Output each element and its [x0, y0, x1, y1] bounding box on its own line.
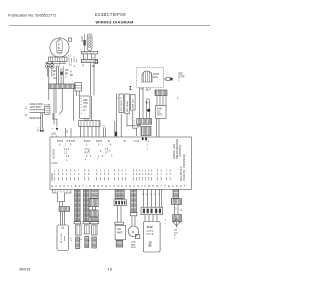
thermistor wire: [116, 94, 118, 138]
evaporator fan motor: [142, 71, 160, 82]
svg-text:GN: GN: [53, 78, 57, 80]
svg-text:J: J: [147, 148, 148, 150]
condenser fan wires: [132, 216, 135, 226]
harness connector lower (hatched): [141, 127, 151, 136]
svg-text:BW15: BW15: [20, 267, 32, 272]
board interior pin grid left: [64, 149, 109, 162]
door switch block (hatched): [173, 215, 182, 222]
svg-text:FRONT: FRONT: [51, 172, 54, 181]
dispenser twin wires: [117, 206, 121, 223]
overload protector strip: [49, 57, 68, 62]
svg-text:AC BOX: AC BOX: [52, 149, 56, 159]
user interface fan wires: [145, 215, 157, 222]
door switch caption: [174, 230, 178, 240]
compressor motor: [50, 38, 69, 57]
board interior extra pin marks: [85, 151, 113, 162]
compressor harness ribbon (hatched): [49, 84, 76, 89]
board lower pin columns: [54, 171, 172, 181]
wires from fan module into board: [157, 119, 160, 138]
board interior second row: [59, 145, 112, 147]
wire BK down from splice: [47, 68, 49, 76]
svg-text:B R B: B R B: [84, 141, 90, 143]
power cord bus: [46, 62, 66, 64]
evaporator compartment (dashed box): [137, 67, 164, 87]
run capacitor: [87, 34, 92, 51]
connector side labels: [165, 220, 167, 226]
svg-text:DEFROST: DEFROST: [30, 117, 42, 120]
svg-text:WIRING DIAGRAM: WIRING DIAGRAM: [96, 20, 135, 25]
door board vertical label: [180, 166, 186, 181]
svg-text:WTR VLV: WTR VLV: [61, 232, 63, 243]
heater assembly box: [80, 96, 91, 118]
svg-text:FRZ SENS: FRZ SENS: [121, 100, 123, 111]
svg-text:OR: OR: [65, 70, 69, 72]
user interface board: [143, 222, 160, 253]
svg-text:DISPENSER: DISPENSER: [183, 154, 186, 168]
svg-text:B R B: B R B: [57, 141, 63, 143]
svg-text:MTR: MTR: [157, 114, 162, 117]
ribbon C lower: [91, 217, 98, 222]
svg-text:DOOR BD: DOOR BD: [183, 169, 186, 181]
ribbon B tail: [85, 237, 89, 248]
wire nut splice right: [50, 62, 54, 68]
splice dot right: [52, 128, 58, 131]
user interface wires: [144, 189, 162, 207]
defrost thermostat: [45, 107, 50, 115]
supply wires horizontal: [30, 110, 45, 113]
thermistor 1 freezer sensor: [119, 94, 124, 113]
connector label P10: [52, 132, 57, 138]
door switch ribbon: [173, 189, 179, 198]
board part number line: [52, 162, 58, 164]
ribbon C splice block 1 (hatched): [89, 199, 98, 207]
elbow wire to board 1: [127, 114, 141, 126]
harness end connector: [75, 83, 82, 92]
line terminals tiny labels: [26, 106, 28, 116]
user interface connector: [141, 207, 163, 215]
harness ribbon A: [75, 189, 81, 221]
wires between connectors: [138, 124, 140, 128]
wires into board top left: [115, 121, 117, 137]
svg-text:BU: BU: [70, 75, 74, 77]
wire labels column 2: [65, 70, 74, 79]
svg-text:R B R: R B R: [96, 141, 102, 143]
splice colon marks: [130, 86, 132, 90]
capacitor bleed resistor label: [81, 34, 86, 52]
board main control vertical text: [172, 139, 182, 159]
harness ribbon C: [91, 189, 98, 198]
splice dots left pair: [37, 128, 44, 132]
water valve plug shell: [53, 189, 71, 201]
aux wires into board: [103, 126, 106, 138]
capacitor terminal bar upper: [81, 51, 97, 54]
svg-text:TSTAT: TSTAT: [44, 103, 51, 106]
svg-text:BRGYO: BRGYO: [142, 194, 161, 196]
svg-text:DR: DR: [174, 230, 178, 232]
dispenser ribbon short wires: [115, 189, 124, 198]
user interface wire labels: [142, 194, 161, 196]
svg-text:REF SENS: REF SENS: [127, 101, 129, 112]
svg-text:BR: BR: [65, 74, 69, 76]
connector side labels: [134, 121, 136, 126]
svg-text:M: M: [132, 230, 134, 234]
capacitor terminal bar lower (hatched): [81, 59, 97, 62]
ribbon A tail: [76, 237, 80, 249]
svg-text:R B R B: R B R B: [67, 141, 76, 143]
ribbon C mid: [92, 207, 95, 210]
water valve connector (hatched): [59, 207, 70, 212]
start relay label marks: [57, 55, 77, 70]
thermostat caption: [30, 103, 52, 120]
water valve body: [57, 225, 69, 251]
svg-text:AMB SEN: AMB SEN: [132, 98, 135, 108]
left harness long wires: [54, 89, 56, 119]
thermal fuse stub: [163, 78, 172, 81]
svg-text:HTR: HTR: [83, 103, 88, 105]
water valve wires: [60, 202, 63, 207]
svg-text:4 1 4: 4 1 4: [64, 149, 70, 151]
harness connector upper (hatched): [137, 119, 152, 125]
svg-text:Publication No. 5995511771: Publication No. 5995511771: [8, 13, 57, 18]
header rule: [10, 25, 211, 27]
fan speed module: [156, 106, 167, 119]
wire from compressor to overload: [54, 55, 56, 58]
right margin note upper: [178, 73, 185, 82]
ribbon C splice block 2 (hatched): [89, 210, 98, 217]
svg-text:FAN: FAN: [153, 76, 158, 79]
board interior top labels right: [124, 141, 150, 151]
svg-text:J1J2: J1J2: [146, 225, 153, 229]
svg-text:1 2 R: 1 2 R: [134, 141, 140, 143]
power line text left: [30, 103, 43, 109]
svg-text:[10]: [10]: [52, 132, 57, 136]
junction dot mid: [147, 109, 150, 112]
twin wires down from line: [41, 113, 43, 129]
svg-text:FAN: FAN: [131, 243, 136, 246]
svg-text:E23BC78IPS9: E23BC78IPS9: [95, 12, 126, 17]
wires fan connector down: [147, 88, 166, 106]
wires into ribbon from terminals: [49, 66, 63, 84]
svg-text:CONTROL: CONTROL: [178, 144, 182, 157]
svg-text:4 3 2 1: 4 3 2 1: [146, 231, 154, 233]
svg-text:ECOPTLEATIPWBRGYONKSDFHJLMPRTV: ECOPTLEATIPWBRGYONKSDFHJLMPRTVECOPT: [52, 185, 188, 188]
stepped wire to splice: [53, 113, 57, 126]
ribbon A plug: [75, 225, 81, 235]
ribbon C plug: [91, 225, 97, 235]
compressor terminal cover square: [68, 38, 71, 41]
door switch wires: [175, 204, 179, 214]
condenser fan ribbon: [131, 189, 137, 212]
thermistor lead wires: [120, 114, 122, 138]
svg-text:MKR: MKR: [117, 232, 123, 235]
long wires down from capacitor bars: [91, 63, 95, 96]
harness ribbon B: [84, 189, 90, 221]
condenser fan motor: [128, 226, 140, 239]
svg-text:r r r r r: r r r r r: [117, 97, 124, 100]
wires capacitor to terminal bars: [84, 54, 96, 60]
thermistor 3 ambient sensor: [131, 95, 136, 111]
svg-text:MTR: MTR: [131, 247, 136, 249]
svg-text:DEF: DEF: [83, 100, 88, 102]
thermistor 2 fresh food sensor: [125, 94, 130, 114]
dispenser plug body: [115, 225, 125, 240]
svg-text:CND: CND: [131, 242, 136, 244]
wire nut splice left: [46, 62, 51, 68]
svg-text:3B: 3B: [148, 245, 151, 248]
wires below ribbon: [49, 89, 92, 121]
svg-text:BK: BK: [53, 71, 57, 73]
svg-text:BK: BK: [146, 102, 150, 105]
main control board outline: [50, 137, 192, 189]
svg-text:120V 60Hz: 120V 60Hz: [30, 106, 43, 109]
heater connector (hatched): [79, 121, 101, 127]
dispenser tail: [116, 240, 123, 247]
fan connector (hatched): [155, 90, 167, 96]
condenser fan caption: [131, 242, 136, 250]
wires entering board top: [66, 128, 72, 137]
ribbon C tail: [92, 237, 97, 248]
wire WH down from splice: [51, 68, 53, 76]
svg-text:19: 19: [108, 267, 113, 272]
ribbon A connector bar: [74, 222, 81, 224]
small junction box right: [95, 61, 97, 64]
svg-text:OR: OR: [146, 90, 150, 92]
door switch connector (hatched): [171, 199, 181, 205]
wire labels column 1: [53, 71, 57, 80]
condenser fan bar: [130, 212, 137, 215]
dispenser connector box: [114, 200, 127, 206]
svg-text:5 6 7 8: 5 6 7 8: [146, 234, 154, 236]
dispenser bar: [115, 222, 123, 224]
sensor labels mid: [146, 98, 150, 105]
wires heater connector to board: [81, 118, 100, 137]
capacitor lead labels: [82, 66, 96, 69]
door switch diamond: [173, 219, 180, 228]
splice mark dark: [60, 72, 63, 75]
water valve lead wires: [61, 211, 65, 225]
ribbon B connector bar: [83, 222, 90, 224]
board interior top label row: [57, 141, 110, 143]
pin dots inside board edge: [142, 138, 147, 141]
ribbon B plug: [85, 225, 90, 234]
harness labels above connector: [141, 89, 150, 93]
wires from dashed box to board: [140, 88, 150, 119]
ribbon C connector bar: [90, 222, 98, 224]
elbow wire to board 2: [133, 111, 137, 137]
